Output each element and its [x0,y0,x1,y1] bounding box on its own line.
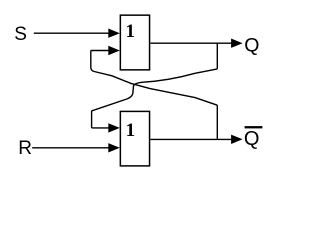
wire U1 output to Q [150,42,232,44]
gate U2 (IEC "1" box, bottom NOR) [120,111,149,165]
wire S to gate U1 pin 1 [34,32,110,34]
svg-text:1: 1 [126,120,136,141]
wire Q feedback diagonal to U2 pin 1 (with hop over crossing) [92,69,217,111]
arrowhead feedback into U1 pin 2 [108,46,120,55]
svg-text:Q: Q [244,34,259,56]
wire Qbar tap vertical [216,105,218,139]
arrowhead R into U2 pin 2 [108,143,120,152]
wire Q tap vertical [216,43,218,69]
arrowhead feedback into U2 pin 1 [108,123,120,132]
wire U2 output to Qbar [150,138,232,140]
wire horizontal into U2 pin 1 [92,127,110,129]
svg-text:R: R [18,138,32,159]
svg-text:S: S [14,24,27,45]
wire Qbar feedback diagonal to U1 pin 2 [91,51,218,106]
arrowhead at Qbar output [231,135,243,144]
overbar of Qbar [245,126,263,128]
arrowhead S into U1 pin 1 [108,29,120,38]
arrowhead at Q output [231,39,243,48]
svg-text:1: 1 [126,21,136,42]
svg-text:Q: Q [244,128,260,150]
wire horizontal into U1 pin 2 [91,50,110,52]
gate U1 (IEC "1" box, top NOR) [120,15,149,70]
wire vertical down to U2 pin 1 level [91,111,93,128]
wire R to gate U2 pin 2 [32,147,110,149]
